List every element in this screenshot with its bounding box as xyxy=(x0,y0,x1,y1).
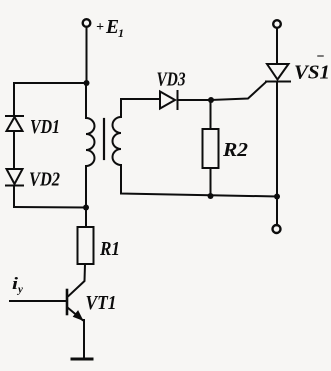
wire left branch to VD1 xyxy=(13,83,15,116)
wire VD3 to node C xyxy=(178,99,212,101)
svg-text:1: 1 xyxy=(118,26,124,40)
node E junction xyxy=(274,194,280,200)
stray mark top right xyxy=(318,55,323,57)
wire emitter to ground xyxy=(83,320,85,358)
node A junction xyxy=(84,80,90,86)
wire secondary bottom rail xyxy=(121,165,277,197)
wire node C to VS1 gate xyxy=(211,82,266,100)
svg-text:VT1: VT1 xyxy=(86,292,117,314)
svg-text:VD2: VD2 xyxy=(29,169,60,191)
svg-text:VS1: VS1 xyxy=(294,62,330,84)
wire VD1 to VD2 xyxy=(13,131,15,169)
transformer T1 secondary winding xyxy=(113,117,122,165)
wire VD2 to bottom rail xyxy=(13,186,15,208)
diode VD3 xyxy=(160,91,178,109)
svg-text:R1: R1 xyxy=(99,238,120,260)
wire base input xyxy=(10,300,67,302)
transformer T1 primary winding xyxy=(86,118,95,166)
svg-text:E: E xyxy=(105,16,119,38)
transformer T1 core xyxy=(103,119,105,159)
wire VS1 cathode lead xyxy=(276,82,278,226)
terminal VS1 cathode xyxy=(273,225,281,233)
wire VS1 anode lead xyxy=(276,28,278,64)
svg-text:VD1: VD1 xyxy=(30,116,60,138)
wire R2 bottom lead xyxy=(210,168,212,196)
node D junction xyxy=(208,193,214,199)
wire R1 to VT1 collector xyxy=(69,264,86,296)
wire E1 down to node A xyxy=(86,27,88,83)
resistor R1 xyxy=(78,227,94,264)
node B junction xyxy=(83,205,89,211)
svg-text:y: y xyxy=(16,284,23,296)
svg-text:R2: R2 xyxy=(222,139,248,161)
diode VD1 xyxy=(6,116,23,131)
wire secondary top lead xyxy=(121,99,160,117)
ground xyxy=(72,358,92,361)
node C junction xyxy=(208,97,214,103)
transistor VT1 xyxy=(67,290,83,320)
wire left branch bottom xyxy=(14,206,86,209)
terminal VS1 anode xyxy=(273,20,281,28)
thyristor VS1 xyxy=(266,64,290,82)
wire primary top lead xyxy=(85,83,87,118)
svg-text:+: + xyxy=(96,20,104,35)
label +E1 xyxy=(96,16,124,40)
label iy xyxy=(12,274,23,296)
terminal +E1 xyxy=(83,19,91,27)
svg-text:VD3: VD3 xyxy=(157,69,186,91)
diode VD2 xyxy=(6,169,23,186)
wire node A to left branch xyxy=(14,82,87,84)
resistor R2 xyxy=(203,129,219,168)
wire node C down to R2 xyxy=(210,100,212,129)
wire primary bottom lead down to R1 xyxy=(85,166,87,227)
